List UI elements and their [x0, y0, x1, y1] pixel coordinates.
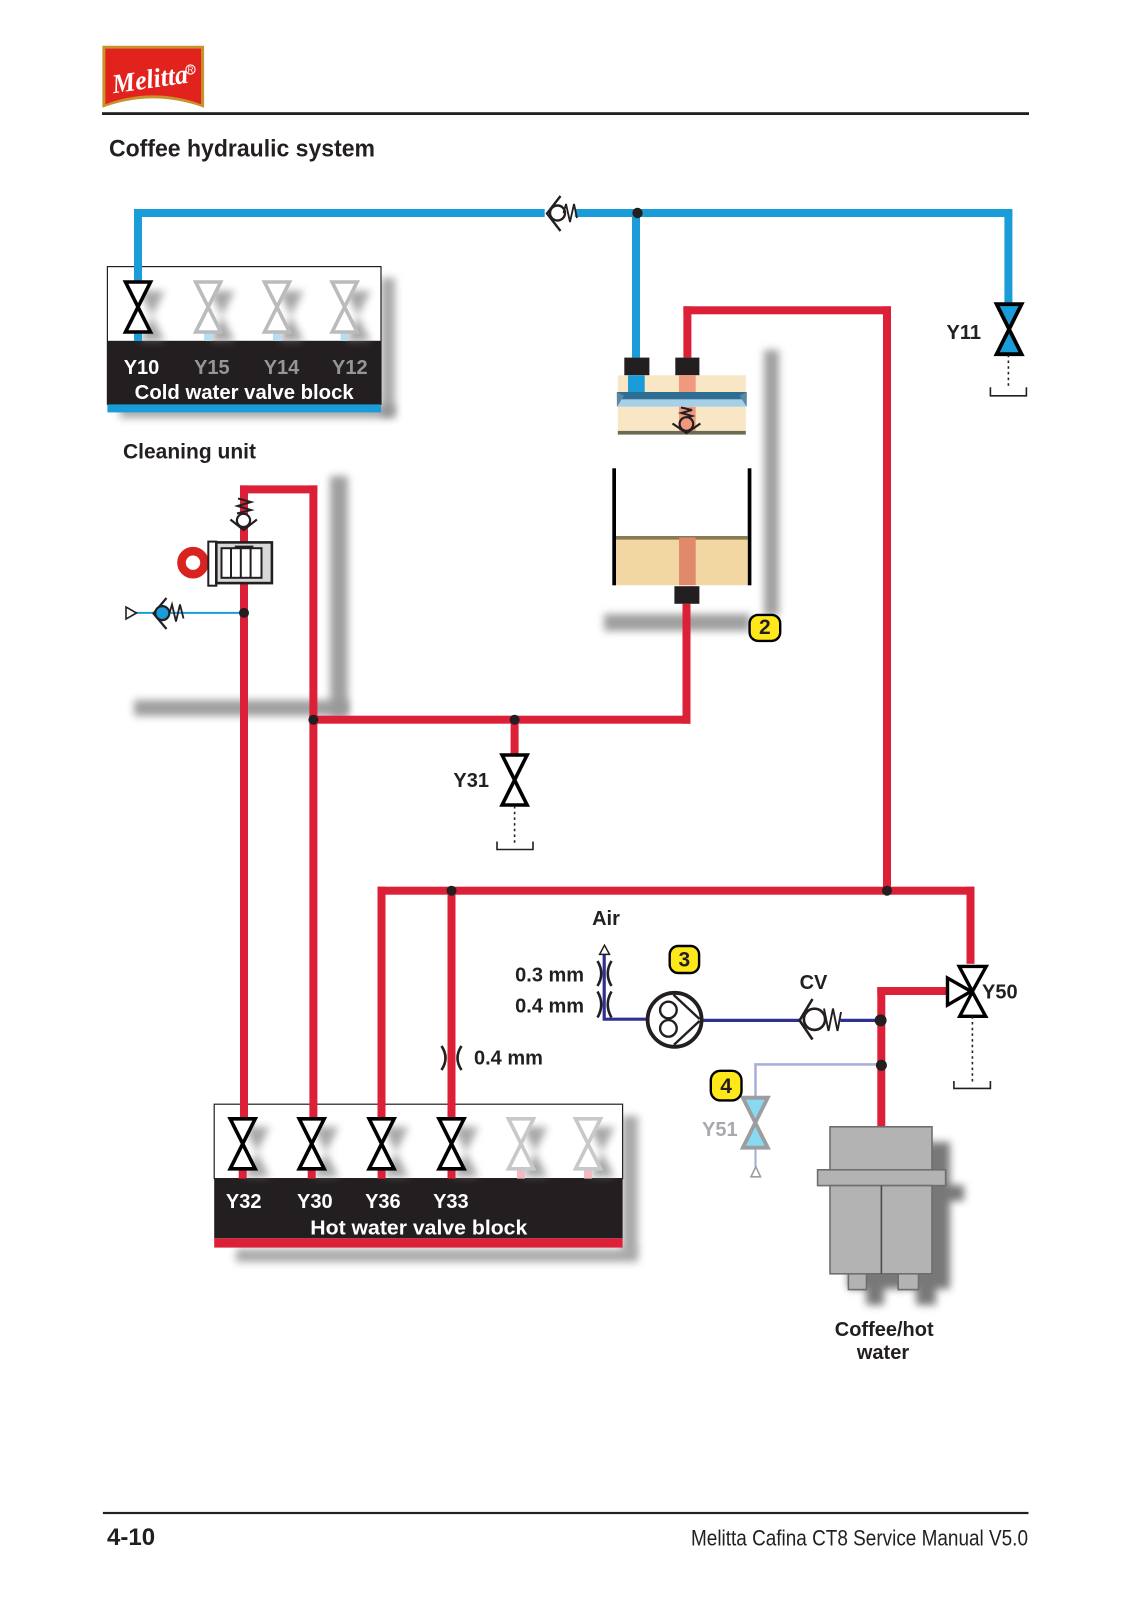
svg-text:0.3 mm: 0.3 mm	[515, 965, 584, 987]
svg-text:Y31: Y31	[453, 770, 489, 792]
svg-text:Y10: Y10	[124, 357, 160, 379]
svg-text:4: 4	[720, 1075, 732, 1098]
svg-text:3: 3	[679, 949, 691, 972]
svg-text:Y50: Y50	[982, 982, 1018, 1004]
svg-text:4-10: 4-10	[107, 1524, 155, 1551]
svg-text:0.4 mm: 0.4 mm	[474, 1048, 543, 1070]
svg-text:Y32: Y32	[226, 1191, 262, 1213]
svg-text:0.4 mm: 0.4 mm	[515, 996, 584, 1018]
svg-text:Y15: Y15	[194, 357, 230, 379]
svg-text:Y51: Y51	[702, 1119, 738, 1141]
svg-text:R: R	[188, 66, 194, 75]
svg-text:Y11: Y11	[947, 322, 981, 344]
svg-text:Cold water valve block: Cold water valve block	[135, 382, 355, 404]
svg-text:Coffee hydraulic system: Coffee hydraulic system	[109, 136, 375, 163]
svg-text:Coffee/hot: Coffee/hot	[835, 1319, 934, 1341]
svg-text:water: water	[856, 1342, 909, 1364]
svg-text:Air: Air	[592, 908, 620, 930]
svg-text:Melitta Cafina CT8 Service Man: Melitta Cafina CT8 Service Manual V5.0	[691, 1526, 1028, 1551]
svg-text:2: 2	[759, 616, 771, 639]
svg-text:Y12: Y12	[332, 357, 368, 379]
svg-text:Y36: Y36	[365, 1191, 401, 1213]
svg-text:Y33: Y33	[433, 1191, 469, 1213]
svg-text:Y14: Y14	[264, 357, 300, 379]
svg-text:Y30: Y30	[297, 1191, 333, 1213]
svg-text:Hot water valve block: Hot water valve block	[310, 1218, 528, 1240]
svg-text:Cleaning unit: Cleaning unit	[123, 441, 256, 464]
svg-text:CV: CV	[800, 972, 828, 994]
